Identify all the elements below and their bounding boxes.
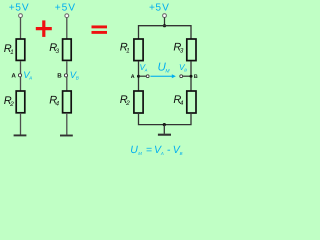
UM arrow [150,74,176,78]
resistor R4 [63,91,72,113]
wire ground stub [163,125,165,134]
wire [138,61,140,90]
red equals sign [92,27,108,33]
wire stub A [139,75,147,77]
svg-text:A: A [11,73,16,80]
svg-text:V: V [68,2,75,13]
node A (divider 1) [18,74,21,77]
svg-text:-: - [167,144,171,156]
svg-text:V: V [162,2,169,13]
node +5V supply label (bridge) [149,2,169,13]
svg-text:A: A [160,151,164,156]
svg-text:U: U [130,144,138,156]
resistor R4 (bridge) [187,91,196,113]
svg-text:B: B [180,151,183,156]
svg-text:B: B [194,74,198,80]
wire [20,61,22,90]
wire stub B [183,75,191,77]
svg-text:+: + [9,2,15,13]
svg-text:+: + [149,2,155,13]
wire [164,17,166,25]
ground (bridge) [158,134,171,136]
node A (bridge) [137,75,140,78]
svg-text:5: 5 [15,2,21,13]
terminal circle bridge [163,14,167,18]
wire [190,61,192,90]
formula UM = VA - VB [130,144,182,156]
wire [66,18,68,39]
resistor R1 (bridge) [134,39,143,61]
svg-text:A: A [131,74,135,80]
junction top [163,24,166,27]
ground (divider 2) [60,135,73,137]
svg-text:5: 5 [62,2,68,13]
svg-text:V: V [22,2,29,13]
terminal circle node A [146,75,149,78]
wire [66,113,68,135]
wire [66,61,68,90]
svg-text:M: M [138,151,142,156]
svg-text:B: B [57,73,62,80]
node +5V supply label (divider 1) [9,2,29,13]
wire [20,17,22,38]
svg-text:5: 5 [155,2,161,13]
node +5V supply label (divider 2) [55,2,76,13]
terminal circle divider 2 [65,14,69,18]
terminal circle divider 1 [19,14,23,18]
wire bottom rail [139,113,192,125]
red plus sign [36,20,52,37]
svg-text:+: + [55,2,61,13]
wire [20,113,22,135]
resistor R2 [16,91,25,113]
terminal circle node B [180,75,183,78]
wire top rail [139,26,192,39]
node B (bridge) [190,75,193,78]
svg-text:=: = [146,144,152,156]
node B (divider 2) [64,74,67,77]
junction bottom [163,123,166,126]
resistor R1 [16,39,25,60]
resistor R3 [63,39,72,60]
resistor R2 (bridge) [134,91,143,113]
ground (divider 1) [14,134,27,136]
resistor R3 (bridge) [187,39,196,61]
